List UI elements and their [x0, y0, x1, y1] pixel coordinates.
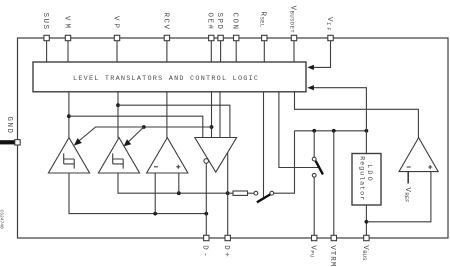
- switch S1 contact left: [254, 191, 258, 195]
- junction A3 minus on D- net: [153, 212, 157, 216]
- svg-text:VTRM: VTRM: [328, 245, 336, 266]
- label VREF: [403, 187, 411, 202]
- wire S1 to VTRM rail: [274, 131, 295, 193]
- wire VM branch to driver A4 input 1: [69, 116, 203, 137]
- junction on enable wire: [142, 125, 146, 129]
- junction rail LDO: [365, 129, 369, 133]
- buffer A2 (schmitt receiver): [98, 138, 139, 173]
- junction A3 plus on D+ net: [177, 191, 181, 195]
- pin GND: [15, 140, 20, 145]
- pin VPU: [312, 235, 317, 240]
- wire VP net below U1 to buffer A2 apex: [117, 92, 119, 138]
- plus label A3: [176, 165, 180, 169]
- wire rail to U1 right side: [313, 88, 366, 131]
- wire OE# to U1: [210, 41, 212, 62]
- pin D+: [225, 235, 230, 240]
- wire SUS to U1: [46, 41, 48, 62]
- wire VIF into U1 right side: [313, 41, 330, 67]
- switch S2 contact bottom: [312, 173, 316, 177]
- wire A1 input to D- net: [69, 173, 206, 214]
- wire rail to LDO: [365, 131, 367, 154]
- wire RCV net below U1 to receiver A3 apex: [166, 92, 168, 138]
- buffer A1 (schmitt receiver): [48, 138, 89, 173]
- plus label A5: [428, 165, 432, 169]
- receiver A3 (differential): [147, 138, 188, 173]
- arrowhead into A1: [74, 138, 82, 146]
- svg-text:CS24740: CS24740: [0, 210, 5, 230]
- pin VIF: [328, 35, 333, 40]
- svg-text:Regulator: Regulator: [358, 156, 366, 200]
- svg-text:OE#: OE#: [206, 13, 214, 30]
- pin VP: [114, 35, 119, 40]
- wire VBUS to comparator plus input: [366, 172, 431, 222]
- wire D+ vertical from A4 right edge to pin: [227, 152, 229, 238]
- GND external stub (thick black bar): [0, 140, 15, 144]
- inverting bubble on A4: [204, 159, 209, 164]
- junction D+ net at resistor: [226, 191, 230, 195]
- junction on VP net: [116, 103, 120, 107]
- wire switch control A below U1: [263, 92, 265, 199]
- wire VTRM rail: [295, 130, 367, 132]
- wire comparator output into U1 bottom: [295, 92, 419, 138]
- junction rail VTRM: [332, 129, 336, 133]
- wire SPD net below U1 to driver A4 input 3: [219, 92, 221, 138]
- wire enable to buffer A2 (with arrow): [128, 127, 144, 142]
- pin VM: [65, 35, 70, 40]
- wire VM to U1: [67, 41, 69, 62]
- wire rail to switch S2: [313, 131, 315, 157]
- pin RCV: [164, 35, 169, 40]
- switch S2 contact top: [312, 157, 316, 161]
- junction rail VPU: [312, 129, 316, 133]
- pin SPD: [218, 35, 223, 40]
- pin RSEL: [262, 35, 267, 40]
- wire enable to buffer A1 (with arrow): [78, 127, 211, 142]
- junction on VM net: [67, 114, 71, 118]
- minus label A5: [407, 166, 411, 168]
- wire VP branch to driver A4 input 4: [118, 105, 230, 137]
- junction D- net: [204, 212, 208, 216]
- wire SPD to U1: [220, 41, 222, 62]
- switch S2 blade: [316, 161, 323, 174]
- svg-text:SPD: SPD: [215, 13, 223, 30]
- junction on OE net: [210, 125, 214, 129]
- switch S1 contact right: [270, 191, 274, 195]
- wire OE net below U1 to driver A4 input 2: [211, 92, 213, 138]
- chip boundary: [18, 38, 449, 238]
- arrowhead into A2: [124, 139, 132, 146]
- pin SUS: [44, 35, 49, 40]
- pin VBUS: [364, 235, 369, 240]
- svg-text:SUS: SUS: [41, 13, 49, 30]
- arrowhead rail into U1: [307, 85, 314, 90]
- arrowhead VIF into U1: [307, 65, 314, 70]
- wire VM net below U1 to buffer A1 apex: [68, 92, 70, 138]
- wire switch control B below U1: [279, 92, 320, 168]
- svg-text:CON: CON: [231, 13, 239, 30]
- wire D- vertical from A4 bubble to pin: [205, 163, 207, 238]
- svg-text:BUSDET: BUSDET: [288, 11, 294, 34]
- wire A2 input to D+ net: [118, 173, 228, 193]
- wire RCV to U1: [166, 41, 168, 62]
- svg-text:RCV: RCV: [161, 13, 169, 30]
- wire CON to U1: [235, 41, 237, 62]
- svg-text:GND: GND: [5, 117, 13, 134]
- switch S1 blade: [257, 194, 270, 202]
- wire A3 minus input: [154, 173, 156, 214]
- pin OE#: [209, 35, 214, 40]
- wire VP to U1: [116, 41, 118, 62]
- wire A5 minus to VREF: [407, 172, 409, 184]
- wire RSEL to U1: [263, 41, 265, 62]
- resistor R1 (pull-up): [230, 192, 233, 194]
- wire A3 plus input: [178, 173, 180, 193]
- svg-text:BUS: BUS: [361, 250, 367, 260]
- wire VTRM rail to VTRM pin: [333, 131, 335, 238]
- pin D-: [204, 235, 209, 240]
- minus label A3: [154, 166, 158, 168]
- svg-text:LEVEL TRANSLATORS AND CONTROL: LEVEL TRANSLATORS AND CONTROL LOGIC: [73, 75, 258, 83]
- comparator A5: [399, 138, 438, 172]
- svg-text:SEL: SEL: [259, 17, 265, 28]
- wire S2 to VPU pin: [313, 177, 315, 238]
- block U1 LEVEL TRANSLATORS AND CONTROL LOGIC: [33, 62, 306, 92]
- hysteresis symbol A1: [64, 153, 74, 168]
- svg-text:REF: REF: [403, 193, 409, 203]
- hysteresis symbol A2: [113, 153, 124, 168]
- LDO regulator U2: [352, 154, 381, 206]
- pin VTRM: [331, 235, 336, 240]
- driver A4 (output transceiver): [195, 138, 237, 173]
- junction VBUS sense: [365, 220, 369, 224]
- wire LDO to VBUS pin: [365, 205, 367, 238]
- wire VBUSDET to U1: [293, 41, 295, 62]
- pin VBUSDET: [291, 35, 296, 40]
- svg-text:PU: PU: [309, 250, 315, 257]
- pin CON: [234, 35, 239, 40]
